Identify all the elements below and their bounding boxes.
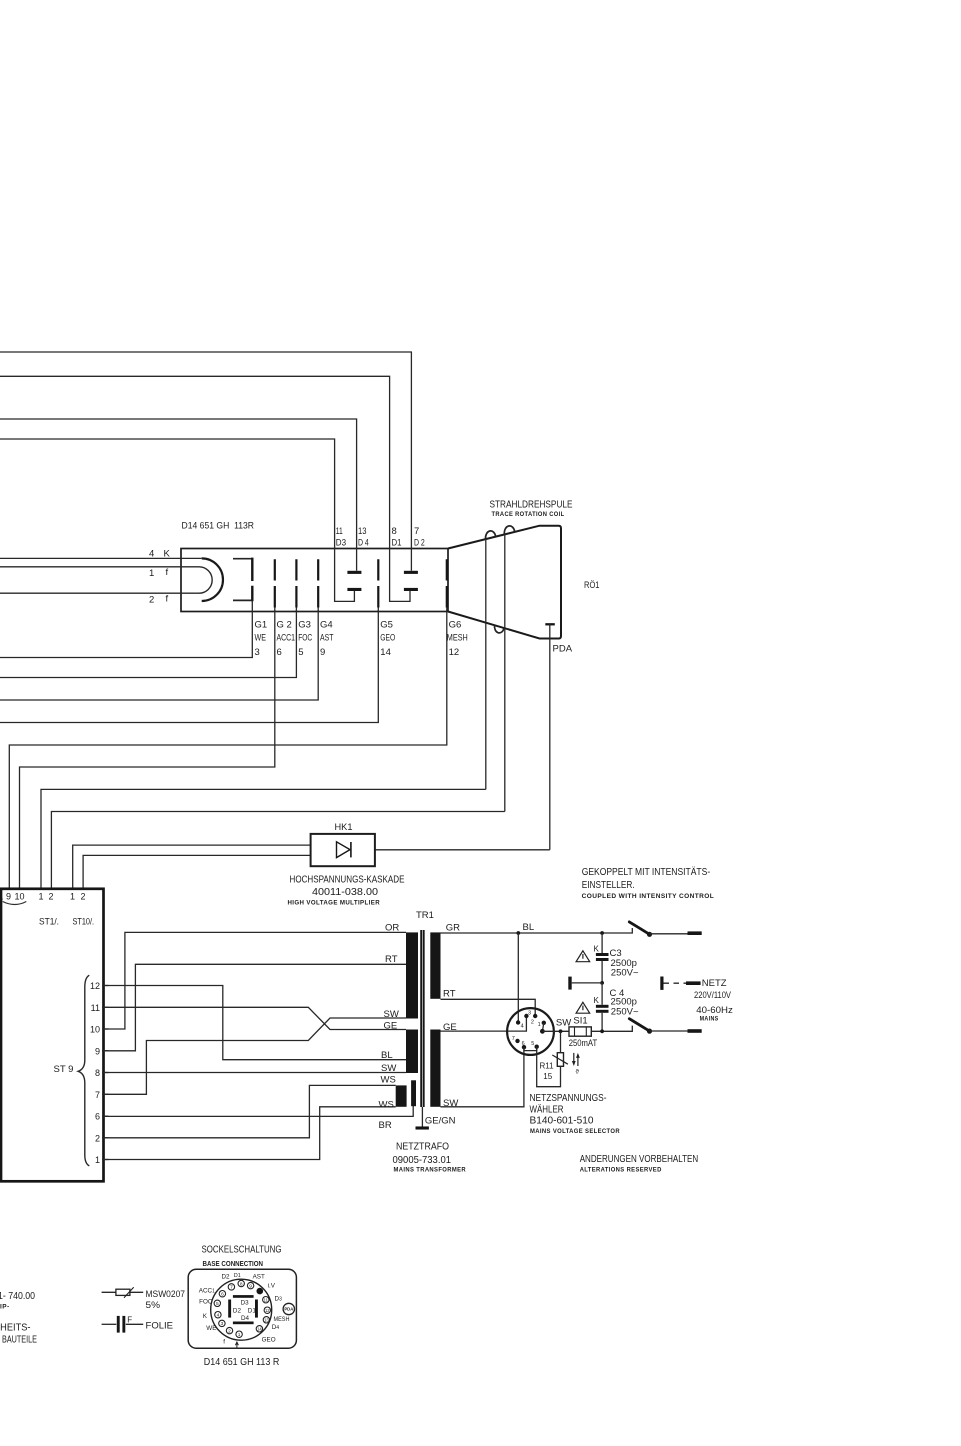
wire pin2 heater f bottom from left edge	[0, 592, 199, 594]
wire ST9 pin1 to TR1 WS lower	[104, 1107, 396, 1160]
deflection plate D4 top-left bar	[347, 571, 361, 574]
svg-text:11: 11	[91, 1003, 100, 1013]
svg-text:WS: WS	[381, 1074, 396, 1085]
svg-text:13: 13	[264, 1318, 269, 1323]
svg-text:D 2: D 2	[414, 538, 425, 549]
transformer TR1 WS-WS winding bar	[396, 1085, 407, 1106]
wire secondary GR/BL line to mains switch	[441, 928, 633, 933]
svg-text:5: 5	[216, 1301, 219, 1307]
svg-text:BR: BR	[379, 1120, 392, 1131]
socket PDA cap circle	[283, 1303, 294, 1314]
socket pin 11	[263, 1297, 269, 1303]
svg-text:D4: D4	[241, 1315, 250, 1322]
deflection plate D3 bottom-left bar	[347, 588, 361, 591]
svg-text:8: 8	[95, 1068, 100, 1078]
grid G4 electrode dashes	[317, 559, 319, 607]
wire switch to NETZ terminal lower	[650, 1030, 688, 1032]
svg-text:1: 1	[538, 1022, 541, 1028]
svg-text:AST: AST	[253, 1273, 265, 1280]
svg-text:1: 1	[149, 568, 154, 579]
svg-text:RT: RT	[443, 989, 456, 1000]
svg-text:WE: WE	[255, 633, 267, 644]
transformer TR1 BR tap bar	[411, 1080, 416, 1106]
chassis terminal bar	[568, 977, 571, 990]
wire pin4 cathode K from left edge	[0, 557, 202, 559]
grid G1 electrode bracket	[233, 559, 252, 601]
junction node R11 top	[559, 1029, 563, 1033]
svg-text:1: 1	[95, 1155, 100, 1165]
wire ST9 pin9 to TR1 RT	[104, 964, 407, 1051]
deflection plate D1 bottom-right bar	[404, 588, 418, 591]
svg-text:10: 10	[90, 1025, 100, 1035]
svg-text:13: 13	[358, 526, 367, 537]
svg-text:TRACE ROTATION COIL: TRACE ROTATION COIL	[492, 511, 565, 518]
wire net G4 AST pin9 from left edge	[0, 610, 318, 700]
svg-text:14: 14	[257, 1327, 262, 1332]
svg-text:. 9: . 9	[1, 892, 11, 902]
socket pin 1	[236, 1331, 242, 1337]
trace rotation coil bottom loop	[494, 625, 504, 633]
tube bell outline	[448, 526, 561, 639]
svg-text:4: 4	[217, 1313, 220, 1319]
deflection plate D2 top-right bar	[404, 571, 418, 574]
svg-text:ACC1: ACC1	[199, 1287, 215, 1294]
svg-text:8: 8	[240, 1281, 243, 1287]
svg-text:40011-038.00: 40011-038.00	[312, 886, 378, 898]
svg-text:HOCHSPANNUNGS-KASKADE: HOCHSPANNUNGS-KASKADE	[290, 874, 405, 886]
ST9 pin 1 stub and number	[102, 1159, 109, 1161]
warning triangle at C3	[576, 951, 590, 962]
svg-text:f: f	[166, 567, 169, 578]
ST9 pin 8 stub and number	[102, 1072, 109, 1074]
svg-text:MESH: MESH	[447, 633, 468, 644]
svg-text:SOCKELSCHALTUNG: SOCKELSCHALTUNG	[202, 1244, 282, 1256]
svg-text:5: 5	[298, 647, 303, 658]
svg-text:9: 9	[95, 1046, 100, 1056]
ST9 pin 11 stub and number	[102, 1006, 109, 1008]
svg-text:IP-: IP-	[0, 1303, 10, 1310]
svg-text:SW: SW	[381, 1063, 396, 1074]
svg-text:TR1: TR1	[416, 910, 434, 921]
socket inner plate D1 right bar	[255, 1300, 258, 1318]
svg-text:4: 4	[521, 1024, 524, 1030]
wire secondary RT to selector pin 2	[441, 999, 536, 1016]
svg-text:RT: RT	[385, 954, 398, 965]
svg-text:PDA: PDA	[284, 1307, 293, 1312]
selector pin 2	[533, 1014, 537, 1018]
transformer TR1 primary winding bar lower section	[406, 1030, 418, 1074]
ST9 pin 7 stub and number	[102, 1093, 109, 1095]
selector pin 4	[516, 1020, 520, 1024]
fuse SI1	[569, 1027, 591, 1036]
svg-text:K: K	[594, 945, 600, 954]
transformer TR1 primary winding bar upper section	[406, 932, 418, 1018]
wire net G3 FOC pin5 from left edge	[0, 610, 296, 678]
svg-text:G3: G3	[298, 620, 311, 631]
PDA wire down to HK1 output	[549, 624, 551, 850]
wire HK1 output to PDA	[375, 849, 550, 851]
svg-text:HK1: HK1	[335, 822, 353, 833]
svg-text:1: 1	[39, 892, 44, 902]
capacitor FOLIE	[102, 1323, 117, 1325]
junction node between C3 C4	[600, 981, 604, 985]
svg-text:HIGH VOLTAGE MULTIPLIER: HIGH VOLTAGE MULTIPLIER	[288, 900, 381, 907]
svg-text:9: 9	[249, 1283, 252, 1289]
wire net D2 pin7 from left edge	[0, 352, 411, 571]
svg-text:2: 2	[149, 594, 154, 605]
svg-text:D4: D4	[272, 1324, 280, 1331]
ST9 pin 10 stub and number	[102, 1028, 109, 1030]
trace rotation coil wire B with top loop	[504, 526, 514, 534]
socket inner plate D3 top bar	[233, 1295, 254, 1298]
socket pin 8	[238, 1280, 244, 1286]
svg-text:WE: WE	[206, 1325, 216, 1332]
svg-text:ST1/.: ST1/.	[39, 917, 59, 927]
wire net G2 ACC1 pin6 from ST1 pin10	[20, 610, 275, 888]
wire ST9 pin8 to TR1 SW lower	[104, 1072, 407, 1074]
svg-text:D14 651 GH 113 R: D14 651 GH 113 R	[204, 1356, 280, 1368]
socket pin 4	[215, 1312, 221, 1318]
high voltage cascade HK1 box	[311, 834, 375, 866]
svg-text:3: 3	[255, 647, 260, 658]
svg-text:AST: AST	[320, 633, 334, 644]
svg-text:14: 14	[380, 647, 391, 658]
wire secondary SW to selector pin 6	[441, 1050, 524, 1107]
svg-text:6: 6	[522, 1041, 525, 1047]
ST9 curly brace	[78, 975, 89, 1166]
svg-text:3: 3	[221, 1321, 224, 1327]
base connection rounded box	[188, 1269, 296, 1348]
svg-text:GEO: GEO	[262, 1337, 276, 1344]
ST9 pin 9 stub and number	[102, 1050, 109, 1052]
ST9 pin 2 stub and number	[102, 1137, 109, 1139]
wire net G5 GEO pin14 from left edge	[0, 610, 378, 723]
socket pin 6	[219, 1291, 225, 1297]
core screen wire GE/GN to chassis	[421, 1107, 423, 1127]
svg-text:250V~: 250V~	[611, 968, 639, 979]
svg-text:FOC: FOC	[199, 1298, 213, 1305]
svg-text:EINSTELLER.: EINSTELLER.	[582, 880, 635, 891]
transformer TR1 secondary winding bar lower section	[430, 1030, 440, 1107]
svg-text:G1: G1	[255, 620, 268, 631]
svg-text:COUPLED WITH INTENSITY CONTROL: COUPLED WITH INTENSITY CONTROL	[582, 893, 715, 900]
mains switch upper pole lever	[629, 922, 649, 934]
svg-text:G5: G5	[380, 620, 393, 631]
socket inner plate D2 left bar	[228, 1300, 231, 1318]
svg-text:D2: D2	[233, 1307, 242, 1314]
capacitor C3	[601, 933, 603, 953]
svg-text:D1: D1	[392, 538, 402, 549]
svg-text:6: 6	[277, 647, 282, 658]
ST9 pin 6 stub and number	[102, 1115, 109, 1117]
svg-text:i.V: i.V	[268, 1283, 276, 1290]
svg-text:ANDERUNGEN VORBEHALTEN: ANDERUNGEN VORBEHALTEN	[580, 1154, 699, 1165]
svg-text:GR: GR	[446, 923, 460, 934]
svg-text:GE: GE	[384, 1020, 398, 1031]
selector pin 1	[542, 1021, 546, 1025]
selector strap pins 6-5	[524, 1047, 537, 1051]
svg-text:12: 12	[449, 647, 460, 658]
svg-text:D1: D1	[234, 1273, 241, 1279]
svg-text:OR: OR	[385, 923, 399, 934]
selector pin 3	[524, 1014, 528, 1018]
voltage selector circle B140	[507, 1008, 554, 1055]
grid G3 electrode dashes	[295, 559, 297, 607]
svg-text:MAINS TRANSFORMER: MAINS TRANSFORMER	[394, 1167, 467, 1174]
svg-text:BASE CONNECTION: BASE CONNECTION	[203, 1261, 264, 1268]
svg-text:4: 4	[149, 549, 154, 560]
svg-text:ST 9: ST 9	[54, 1064, 74, 1075]
svg-text:STRAHLDREHSPULE: STRAHLDREHSPULE	[490, 499, 573, 511]
socket pin 13	[263, 1317, 269, 1323]
heater filament arc	[199, 567, 212, 593]
trace rotation coil wire A with top loop	[486, 531, 496, 539]
wire ST9 pin7 to TR1 SW crossing	[104, 1018, 407, 1094]
NETZ terminal bar lower	[688, 1029, 702, 1033]
wire net D1 pin8 from left edge	[0, 376, 410, 601]
svg-text:12: 12	[265, 1308, 270, 1313]
selector pin 6	[522, 1045, 526, 1049]
svg-text:GE/GN: GE/GN	[425, 1116, 456, 1127]
mains switch lower pole lever	[629, 1019, 649, 1031]
svg-text:NETZTRAFO: NETZTRAFO	[396, 1141, 449, 1153]
temperature arrows at R11	[573, 1053, 575, 1063]
transformer TR1 secondary winding bar upper section	[430, 932, 440, 998]
svg-text:D2: D2	[222, 1274, 231, 1281]
wire net G6 MESH pin12 from ST1 pin9	[9, 610, 447, 888]
junction node C4 bottom	[600, 1029, 604, 1033]
warning triangle at C4	[576, 1002, 590, 1013]
capacitor C4	[601, 983, 603, 1005]
socket pin 14	[256, 1326, 262, 1332]
svg-text:SW: SW	[384, 1009, 399, 1020]
cathode K arc	[202, 558, 223, 601]
connector board box ST1/ST10/ST9	[1, 889, 104, 1182]
svg-text:10: 10	[15, 892, 25, 902]
wire ST9 pin11 to TR1 GE crossing	[104, 1007, 407, 1029]
junction node BL	[516, 931, 520, 935]
wire ST9 pin10 to TR1 OR	[104, 932, 407, 1029]
PDA anode terminal bar	[545, 623, 555, 625]
wire ST9 pin6 to TR1 BR	[104, 1106, 414, 1117]
wire net D4 pin13 from left edge	[0, 419, 357, 571]
svg-text:SI1: SI1	[573, 1015, 587, 1026]
svg-text:D3: D3	[241, 1300, 250, 1307]
resistor MSW0207	[102, 1291, 144, 1293]
svg-text:FOC: FOC	[298, 633, 312, 644]
socket pin 5	[214, 1300, 220, 1306]
wire to chassis terminal	[572, 982, 602, 984]
svg-text:WS: WS	[379, 1100, 394, 1111]
svg-text:F: F	[127, 1315, 132, 1324]
svg-text:250V~: 250V~	[611, 1007, 639, 1018]
wire ST9 pin2 to TR1 WS upper	[104, 1085, 396, 1137]
svg-text:7: 7	[230, 1285, 233, 1291]
selector pin 7	[515, 1039, 519, 1043]
svg-text:6: 6	[221, 1292, 224, 1298]
wire BL riser to selector pin 4	[517, 933, 519, 1023]
svg-text:11: 11	[264, 1298, 269, 1303]
wire pin1 heater f top from left edge	[0, 566, 199, 568]
svg-text:MSW0207: MSW0207	[146, 1289, 186, 1300]
socket index arrow	[235, 1342, 238, 1348]
grid G5 electrode dashes	[377, 559, 379, 607]
wire coil B from ST1 pin2	[51, 812, 504, 889]
svg-text:B140-601-510: B140-601-510	[530, 1114, 594, 1126]
svg-text:K: K	[594, 996, 600, 1005]
base connection socket circle	[211, 1279, 272, 1340]
continuation swoosh under pins 9 10	[3, 902, 27, 905]
ST9 pin 12 stub and number	[102, 985, 109, 987]
svg-text:2: 2	[95, 1133, 100, 1143]
socket pin 3	[219, 1320, 225, 1326]
svg-text:1: 1	[70, 892, 75, 902]
diode symbol inside HK1	[337, 842, 351, 858]
svg-text:f: f	[223, 1338, 225, 1345]
svg-text:K: K	[164, 549, 171, 560]
junction node C3 top	[600, 931, 604, 935]
svg-text:MAINS: MAINS	[700, 1016, 719, 1023]
svg-text:12: 12	[90, 981, 100, 991]
svg-text:2: 2	[81, 892, 86, 902]
svg-text:GEO: GEO	[380, 633, 395, 644]
svg-text:2: 2	[531, 1020, 534, 1026]
svg-text:ALTERATIONS RESERVED: ALTERATIONS RESERVED	[580, 1167, 662, 1174]
selector pin 5	[535, 1045, 539, 1049]
svg-text:BAUTEILE: BAUTEILE	[2, 1333, 37, 1345]
socket pin 7	[228, 1284, 234, 1290]
svg-text:1- 740.00: 1- 740.00	[0, 1291, 35, 1302]
wire SW output line through fuse to switch	[542, 1026, 632, 1032]
transformer TR1 core lines	[420, 930, 422, 1107]
wire HK1 upper input from ST10 pin1	[73, 845, 311, 888]
svg-text:6: 6	[95, 1112, 100, 1122]
chassis bar	[416, 1126, 429, 1129]
svg-text:5%: 5%	[146, 1300, 161, 1311]
wire ST9 pin12 to TR1 BL	[104, 986, 407, 1060]
socket inner plate D4 bottom bar	[233, 1322, 254, 1325]
svg-text:D3: D3	[336, 538, 346, 549]
svg-text:2: 2	[228, 1328, 231, 1334]
svg-text:ST10/.: ST10/.	[73, 917, 95, 927]
svg-text:15: 15	[543, 1072, 552, 1081]
wire net D3 pin11 from left edge	[0, 439, 354, 601]
svg-text:D 4: D 4	[358, 538, 369, 549]
socket pin 9	[247, 1282, 253, 1288]
svg-text:BL: BL	[381, 1050, 393, 1061]
wire HK1 lower input from ST10 pin2	[83, 855, 311, 888]
svg-text:NETZSPANNUNGS-: NETZSPANNUNGS-	[530, 1092, 607, 1104]
svg-text:7: 7	[414, 526, 419, 537]
svg-text:7: 7	[512, 1036, 515, 1042]
wire secondary GE to selector rim	[441, 1016, 527, 1031]
NETZ terminal bar upper	[688, 931, 702, 935]
svg-text:2: 2	[49, 892, 54, 902]
thermistor R11	[560, 1031, 562, 1052]
svg-text:PDA: PDA	[553, 644, 573, 655]
svg-text:ACC1: ACC1	[277, 633, 296, 644]
svg-text:220V/110V: 220V/110V	[694, 990, 732, 1001]
socket pin 10 filled	[257, 1288, 264, 1295]
wire net G1 WE pin3 from left edge	[0, 600, 252, 657]
NETZ plug symbol middle	[660, 977, 663, 990]
svg-text:09005-733.01: 09005-733.01	[393, 1154, 452, 1166]
svg-text:11: 11	[336, 526, 343, 537]
svg-text:250mAT: 250mAT	[569, 1038, 598, 1049]
svg-text:R11: R11	[540, 1062, 555, 1071]
svg-text:G4: G4	[320, 620, 333, 631]
svg-text:5: 5	[531, 1041, 534, 1047]
svg-text:3: 3	[528, 1011, 531, 1017]
svg-text:7: 7	[95, 1090, 100, 1100]
svg-text:RHEITS-: RHEITS-	[0, 1322, 31, 1334]
svg-text:9: 9	[320, 647, 325, 658]
svg-text:FOLIE: FOLIE	[146, 1321, 174, 1332]
svg-text:f: f	[166, 593, 169, 604]
svg-text:40-60Hz: 40-60Hz	[696, 1005, 733, 1016]
wire coil A from ST1 pin1	[41, 789, 486, 888]
svg-text:MESH: MESH	[274, 1316, 290, 1323]
wire switch to NETZ terminal upper	[650, 933, 688, 935]
svg-text:MAINS VOLTAGE SELECTOR: MAINS VOLTAGE SELECTOR	[530, 1128, 620, 1135]
svg-text:G6: G6	[449, 620, 462, 631]
svg-text:D14 651 GH 113R: D14 651 GH 113R	[182, 521, 255, 532]
svg-text:GEKOPPELT MIT INTENSITÄTS-: GEKOPPELT MIT INTENSITÄTS-	[582, 866, 711, 878]
selector pin1 stub to SW output	[542, 1023, 543, 1032]
svg-text:8: 8	[392, 526, 397, 537]
grid G2 electrode dashes	[274, 559, 276, 607]
svg-text:D1: D1	[248, 1307, 257, 1314]
svg-text:BL: BL	[523, 922, 535, 933]
CRT tube RÖ1 neck outline	[181, 549, 448, 612]
svg-text:1: 1	[238, 1332, 241, 1338]
socket pin 12	[264, 1307, 270, 1313]
svg-text:RÖ1: RÖ1	[584, 580, 600, 591]
socket pin 2	[226, 1327, 232, 1333]
svg-text:G 2: G 2	[277, 620, 292, 631]
grid G6 mesh electrode dashes	[446, 559, 448, 607]
svg-text:NETZ: NETZ	[702, 978, 727, 989]
svg-text:D3: D3	[275, 1295, 283, 1302]
